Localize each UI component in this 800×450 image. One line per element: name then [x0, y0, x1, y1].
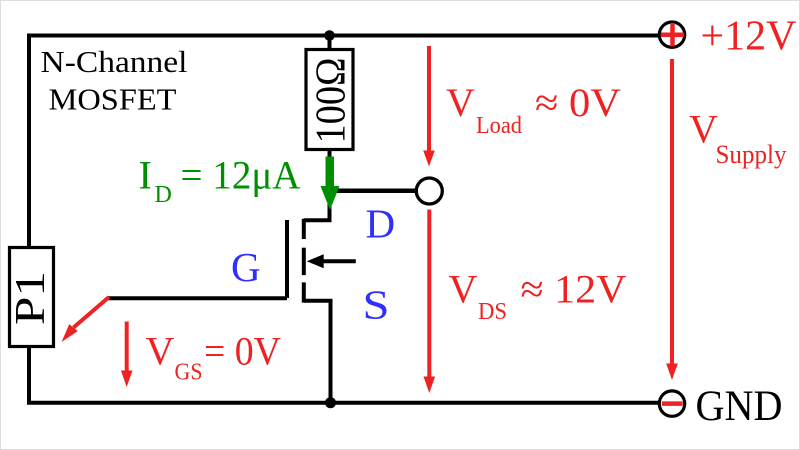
svg-text:I: I	[139, 153, 152, 198]
wire: junction to resistor	[328, 36, 332, 52]
voltage arrow V_Supply	[666, 59, 678, 380]
wire: bottom rail to GND	[27, 401, 659, 405]
svg-text:V: V	[446, 80, 475, 125]
svg-text:N-Channel: N-Channel	[41, 44, 188, 79]
svg-text:V: V	[449, 267, 478, 312]
svg-text:= 0V: = 0V	[204, 328, 281, 373]
label V_GS = 0V	[146, 328, 282, 385]
transistor Q1 body arrow	[307, 254, 356, 268]
node: source junction dot	[325, 397, 336, 408]
terminal: drain test point open circle	[416, 178, 442, 204]
current arrow I_D green	[321, 157, 340, 211]
voltage arrow V_Load	[423, 46, 435, 167]
node: top junction dot	[324, 30, 335, 41]
wire: resistor to drain bend	[304, 150, 330, 221]
terminal: GND circle with minus	[659, 391, 684, 416]
potentiometer P1	[8, 248, 54, 347]
svg-text:GND: GND	[696, 383, 783, 430]
label V_Supply	[689, 107, 787, 169]
svg-text:≈ 12V: ≈ 12V	[521, 267, 627, 312]
svg-text:D: D	[155, 182, 172, 208]
label V_DS ≈ 12V	[449, 267, 627, 325]
svg-text:≈ 0V: ≈ 0V	[535, 80, 621, 125]
svg-text:G: G	[231, 244, 261, 290]
transistor Q1 channel dash body	[302, 248, 306, 275]
svg-text:+12V: +12V	[701, 14, 797, 60]
label I_D = 12µA	[139, 153, 301, 209]
svg-text:= 12μA: = 12μA	[181, 153, 301, 198]
transistor Q1 gate line	[285, 220, 289, 298]
svg-text:DS: DS	[478, 299, 507, 325]
svg-text:S: S	[363, 282, 390, 328]
wire: left rail lower	[27, 345, 31, 405]
label N-Channel MOSFET	[41, 44, 188, 116]
label V_Load ≈ 0V	[446, 80, 621, 139]
svg-text:Supply: Supply	[716, 140, 787, 169]
wire: top rail to +12V	[27, 34, 659, 38]
voltage arrow V_GS	[121, 322, 133, 388]
voltage arrow V_DS	[424, 210, 436, 394]
svg-text:100Ω: 100Ω	[309, 58, 355, 144]
wire: drain stub to test point	[330, 189, 418, 194]
svg-text:V: V	[689, 107, 718, 152]
svg-text:Load: Load	[476, 113, 522, 139]
svg-text:GS: GS	[175, 360, 203, 386]
svg-text:P1: P1	[8, 271, 54, 325]
potentiometer wiper arrow	[62, 297, 110, 342]
svg-text:MOSFET: MOSFET	[49, 81, 177, 116]
resistor 100Ω	[306, 50, 355, 150]
wire: gate lead	[108, 296, 287, 300]
transistor Q1 channel dash source	[302, 282, 306, 302]
svg-text:V: V	[146, 328, 175, 373]
terminal: +12V supply circle with plus	[659, 22, 684, 47]
wire: left rail upper	[27, 34, 31, 251]
transistor Q1 channel dash drain	[302, 219, 306, 239]
svg-text:D: D	[366, 201, 396, 247]
wire: source lead	[304, 301, 331, 403]
